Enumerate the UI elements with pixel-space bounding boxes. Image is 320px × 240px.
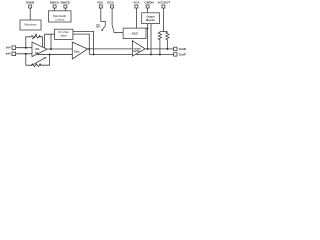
svg-text:AGC: AGC — [131, 32, 139, 36]
svg-text:BWCB: BWCB — [61, 1, 71, 5]
svg-text:MGC: MGC — [96, 27, 101, 29]
svg-text:LNA: LNA — [35, 48, 40, 51]
svg-text:InP: InP — [6, 46, 11, 50]
svg-text:BWCA: BWCA — [50, 1, 60, 5]
svg-text:Monitor: Monitor — [146, 19, 155, 22]
svg-text:DC offset: DC offset — [59, 31, 70, 34]
svg-text:OutP: OutP — [179, 52, 186, 56]
svg-text:Shutdown: Shutdown — [24, 22, 37, 26]
svg-text:CMON: CMON — [144, 1, 153, 5]
svg-text:VCA: VCA — [133, 1, 140, 5]
svg-text:VCCOUT: VCCOUT — [157, 1, 170, 5]
svg-text:SHDN: SHDN — [26, 1, 35, 5]
svg-text:VGC: VGC — [97, 1, 104, 5]
svg-text:Control: Control — [55, 17, 64, 21]
svg-text:InN: InN — [6, 52, 11, 56]
svg-text:buffer: buffer — [133, 51, 140, 53]
svg-text:adjust: adjust — [60, 35, 67, 38]
svg-text:GCB: GCB — [107, 1, 115, 5]
svg-text:Output: Output — [146, 16, 154, 19]
svg-text:OutN: OutN — [179, 47, 186, 51]
svg-text:Gain: Gain — [74, 50, 80, 54]
